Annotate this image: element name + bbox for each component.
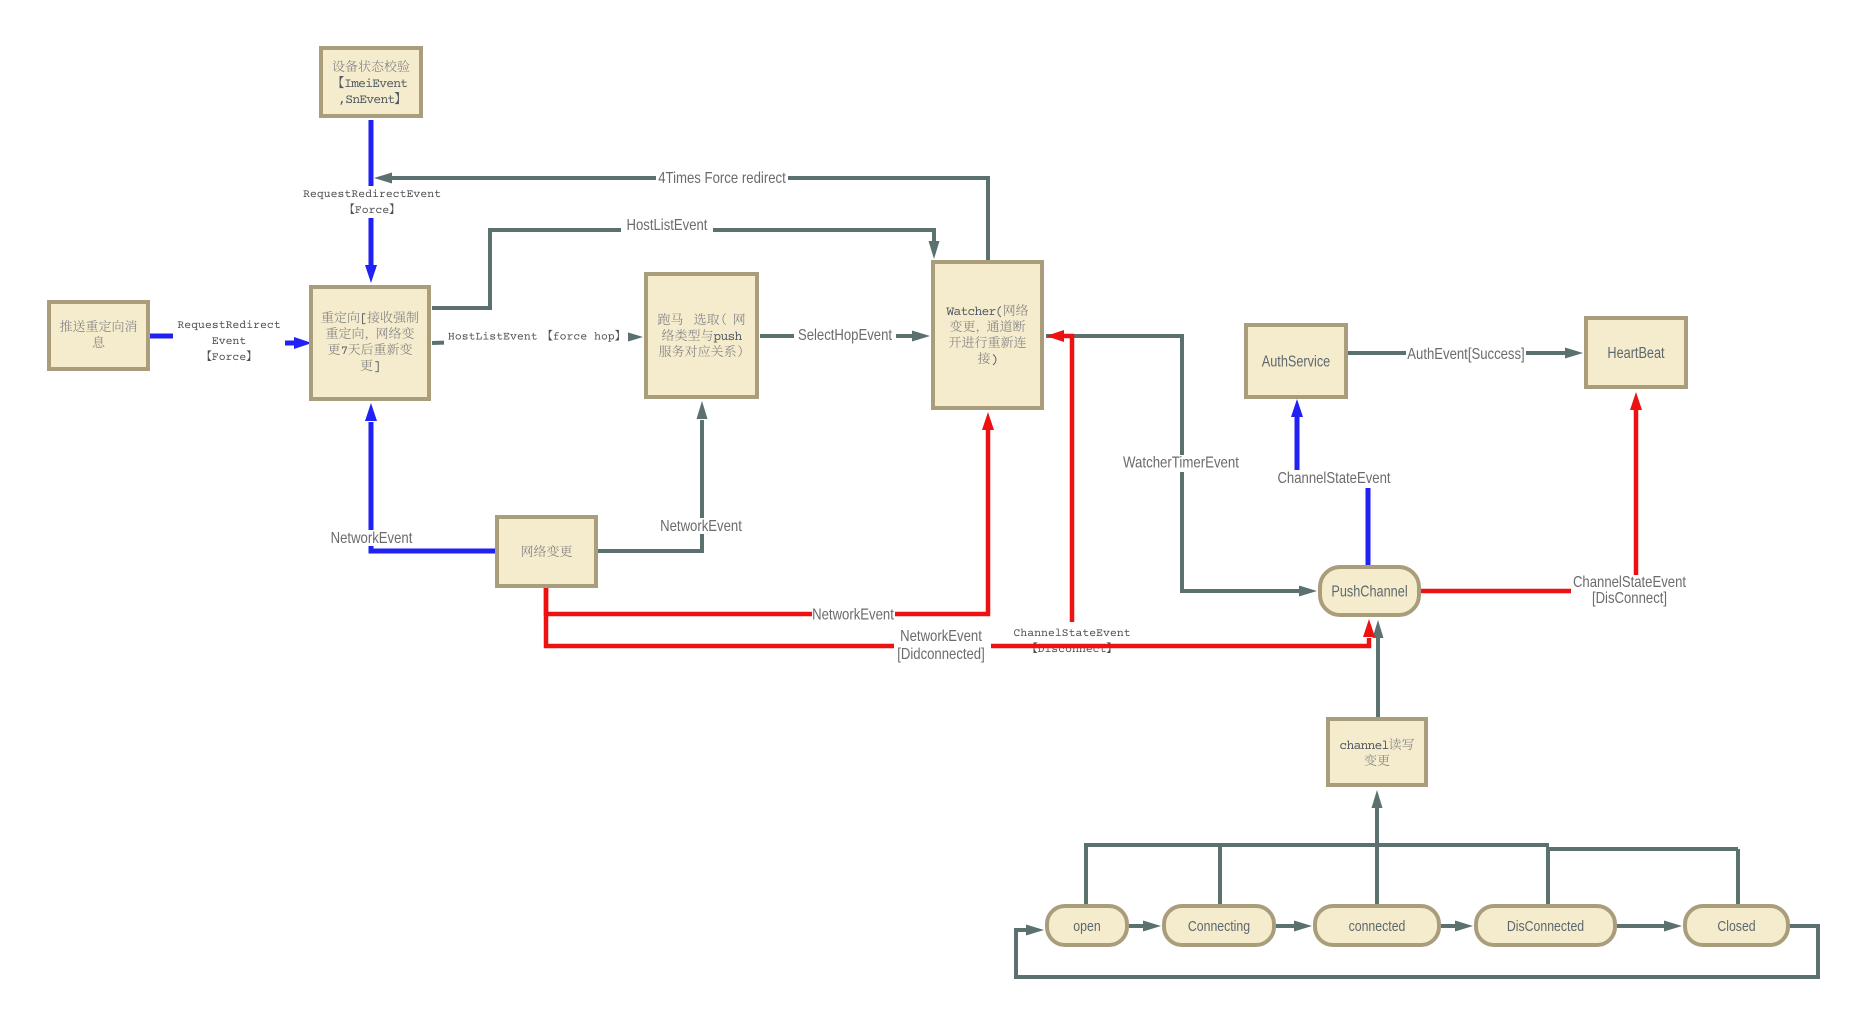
svg-text:AuthEvent[Success]: AuthEvent[Success] — [1407, 346, 1524, 363]
text 设备状态校验 text — [333, 60, 410, 72]
label NetworkEvent gray — [660, 518, 742, 534]
wire bus drop Closed — [1736, 849, 1740, 904]
arrowhead into 重定向 left — [294, 337, 312, 349]
label NetworkEvent Didconnected — [894, 629, 991, 661]
label NetworkEvent red — [812, 607, 895, 623]
arrowhead into Closed — [1664, 921, 1682, 932]
arrowhead into channel box — [1372, 790, 1383, 808]
wire SelectHopEvent — [760, 334, 913, 338]
box HeartBeat — [1586, 318, 1686, 387]
box 重定向 — [311, 287, 429, 399]
arrowhead into connected — [1294, 921, 1312, 932]
svg-text:WatcherTimerEvent: WatcherTimerEvent — [1123, 455, 1239, 472]
svg-text:NetworkEvent: NetworkEvent — [331, 530, 413, 547]
wire AuthEvent — [1348, 351, 1566, 355]
label ChannelStateEvent blue — [1277, 470, 1391, 488]
svg-text:ChannelStateEvent: ChannelStateEvent — [1573, 574, 1687, 591]
svg-text:connected: connected — [1349, 918, 1406, 935]
label ChannelStateEvent DisConnect — [1571, 575, 1688, 606]
wire bus drop open — [1084, 843, 1088, 904]
wire ChannelStateEvent DisConnect to HeartBeat — [1421, 409, 1636, 591]
wire DisConnected to Closed — [1617, 924, 1665, 928]
arrowhead into PushChannel bottom red — [1363, 619, 1375, 637]
wire open to Connecting — [1129, 924, 1144, 928]
svg-text:[Didconnected]: [Didconnected] — [897, 646, 985, 663]
wire NetworkEvent Didconnected red — [546, 588, 1369, 646]
text 重定向 text — [322, 311, 419, 324]
wire channel to PushChannel — [1376, 638, 1380, 717]
box open pill — [1047, 906, 1127, 945]
arrowhead AuthEvent into HeartBeat — [1565, 348, 1583, 359]
wire state bus left — [1086, 843, 1549, 847]
label SelectHopEvent — [794, 327, 896, 344]
arrowhead 4Times into blue line — [374, 173, 392, 184]
arrowhead into Watcher bottom — [982, 412, 994, 430]
text Watcher text — [946, 304, 1028, 317]
arrowhead into Watcher right — [1046, 330, 1064, 342]
arrowhead into Connecting — [1143, 921, 1161, 932]
wire ChannelStateEvent Disconnect to Watcher — [1064, 336, 1072, 644]
svg-text:[DisConnect]: [DisConnect] — [1592, 590, 1667, 607]
box AuthService — [1246, 325, 1346, 397]
svg-text:Closed: Closed — [1717, 918, 1755, 935]
svg-text:PushChannel: PushChannel — [1331, 584, 1407, 601]
wire bus drop DisConnected — [1546, 847, 1550, 904]
box 网络变更 — [497, 517, 596, 586]
svg-text:NetworkEvent: NetworkEvent — [660, 518, 742, 535]
label AuthEvent[Success] — [1406, 346, 1526, 363]
label ChannelStateEvent Disconnect — [1008, 622, 1136, 646]
arrowhead feedback into open — [1026, 925, 1044, 936]
label NetworkEvent blue — [330, 530, 413, 546]
wire 4Times Force redirect — [392, 178, 988, 262]
arrowhead into 重定向 bottom — [365, 403, 377, 421]
svg-text:NetworkEvent: NetworkEvent — [900, 628, 982, 645]
box DisConnected pill — [1476, 906, 1615, 945]
box channel读写变更 — [1328, 719, 1426, 785]
arrowhead into PushChannel bottom gray — [1373, 620, 1384, 638]
label 4Times Force redirect — [656, 170, 788, 188]
box 推送重定向消息 — [49, 302, 148, 369]
wire bus drop connected — [1375, 845, 1379, 904]
wire HostListEvent top — [432, 230, 934, 308]
wire Connecting to connected — [1276, 924, 1295, 928]
arrowhead force hop into 跑马 — [625, 332, 643, 343]
text 推送重定向消息 text — [60, 320, 137, 332]
wire HostListEvent force hop — [432, 337, 626, 343]
box 设备状态校验 — [321, 48, 421, 116]
svg-text:4Times Force redirect: 4Times Force redirect — [658, 170, 786, 187]
arrowhead SelectHopEvent into Watcher — [912, 331, 930, 342]
label HostListEvent — [621, 218, 713, 232]
wire bus to channel box — [1375, 807, 1379, 845]
svg-text:HostListEvent: HostListEvent — [627, 217, 708, 234]
box Closed pill — [1685, 906, 1788, 945]
wire WatcherTimerEvent — [1046, 336, 1300, 591]
label RequestRedirectEvent Force — [300, 186, 444, 218]
wire NetworkEvent to 跑马 — [598, 420, 702, 551]
wire connected to DisConnected — [1441, 924, 1456, 928]
text 跑马 text — [658, 313, 745, 325]
svg-text:HeartBeat: HeartBeat — [1607, 345, 1665, 362]
box 跑马选取 — [646, 274, 757, 397]
arrowhead WatcherTimerEvent into PushChannel — [1299, 586, 1317, 597]
arrowhead into DisConnected — [1455, 921, 1473, 932]
wire bus drop Connecting — [1218, 843, 1222, 904]
wire NetworkEvent red — [546, 430, 988, 614]
wire ChannelStateEvent upper — [1295, 417, 1300, 472]
svg-text:ChannelStateEvent: ChannelStateEvent — [1277, 470, 1391, 487]
svg-text:Connecting: Connecting — [1188, 918, 1250, 935]
arrowhead into HeartBeat bottom — [1630, 392, 1642, 410]
wire RequestRedirectEvent force (top) — [369, 120, 374, 265]
box PushChannel — [1320, 567, 1419, 615]
box Connecting pill — [1164, 906, 1274, 945]
box Watcher — [933, 262, 1042, 408]
label WatcherTimerEvent — [1123, 455, 1239, 472]
arrowhead NetworkEvent into 跑马 — [697, 401, 708, 419]
label HostListEvent force hop — [444, 326, 628, 347]
svg-text:DisConnected: DisConnected — [1507, 918, 1584, 935]
wire Closed feedback to open — [1016, 926, 1818, 977]
text 网络变更 text — [522, 545, 572, 557]
wire ChannelStateEvent lower — [1366, 488, 1371, 565]
label RequestRedirect Event Force — [173, 316, 285, 365]
text channel读写变更 text — [1340, 738, 1414, 750]
svg-text:AuthService: AuthService — [1262, 354, 1331, 371]
svg-text:SelectHopEvent: SelectHopEvent — [798, 327, 893, 344]
wire state bus right — [1547, 847, 1738, 851]
wire RequestRedirectEvent force (left) — [150, 336, 294, 343]
svg-text:open: open — [1073, 918, 1100, 935]
box connected pill — [1315, 906, 1439, 945]
arrowhead into 重定向 top — [365, 265, 377, 283]
svg-text:NetworkEvent: NetworkEvent — [812, 607, 894, 624]
arrowhead into AuthService — [1291, 399, 1303, 417]
wire NetworkEvent blue — [371, 422, 495, 551]
arrowhead HostListEvent into Watcher — [929, 241, 940, 259]
